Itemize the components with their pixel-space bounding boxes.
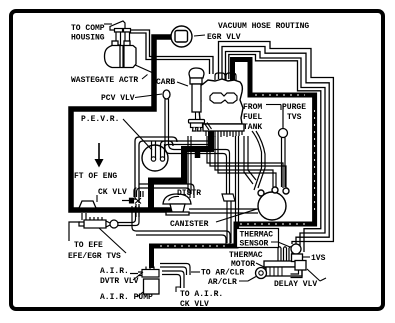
PCV valve fitting xyxy=(163,90,170,99)
delay valve xyxy=(295,261,306,271)
svg-text:A.I.R.: A.I.R. xyxy=(100,267,129,276)
thermac motor actuator circle xyxy=(256,268,267,279)
wire distributor to canister hose xyxy=(189,208,258,210)
wire PCV hose pair down and right to Y junction xyxy=(165,99,227,194)
svg-text:EFE/EGR TVS: EFE/EGR TVS xyxy=(68,252,121,261)
wire diverter to A.I.R. CK VLV elbow xyxy=(162,271,184,288)
svg-text:THERMAC: THERMAC xyxy=(240,231,274,240)
wire carb base pair down to thermac band xyxy=(236,136,239,228)
wire to comp housing hose pair lower line xyxy=(126,33,210,74)
P.E.V.R. nipple tubes xyxy=(151,141,164,161)
svg-text:A.I.R. PUMP: A.I.R. PUMP xyxy=(100,293,153,302)
svg-text:DELAY VLV: DELAY VLV xyxy=(274,280,317,289)
wire thin bundle line 4 (inner) xyxy=(229,55,321,253)
wire PEVR area hoses to distributor xyxy=(139,184,194,198)
label leader comp housing xyxy=(104,23,112,25)
P.E.V.R. valve xyxy=(142,145,168,171)
carburetor top nipple bumps xyxy=(215,73,236,80)
label THERMAC SENSOR boxed xyxy=(237,229,279,248)
compressor housing fitting xyxy=(110,21,131,45)
wire thin bundle line 3 xyxy=(226,52,326,253)
thermac motor body xyxy=(266,267,302,276)
wire diverter to AR/CLR elbow xyxy=(160,264,190,276)
svg-text:P.E.V.R.: P.E.V.R. xyxy=(81,115,119,124)
wire thick lower bottom extension xyxy=(148,207,181,213)
wire purge TVS tube down to canister xyxy=(282,138,286,188)
svg-text:1VS: 1VS xyxy=(311,254,326,263)
svg-text:FUEL: FUEL xyxy=(243,113,262,122)
wire carb base pair 3 to canister mid nipple xyxy=(215,136,276,187)
svg-text:SENSOR: SENSOR xyxy=(240,240,269,249)
purge TVS valve xyxy=(279,129,288,138)
svg-text:EGR VLV: EGR VLV xyxy=(207,33,241,42)
wire carb base pair 2 to canister right nipple xyxy=(207,136,286,188)
svg-text:HOUSING: HOUSING xyxy=(71,34,105,43)
wire TO EFE bracket xyxy=(69,222,80,241)
wire wastegate hose to thick riser xyxy=(133,64,152,73)
svg-text:DISTR: DISTR xyxy=(177,189,201,198)
svg-text:PURGE: PURGE xyxy=(282,103,306,112)
carburetor body xyxy=(198,79,243,124)
arrow FT OF ENG xyxy=(98,143,100,160)
wire thick main hose: carb top around right side to A.I.R. diverter xyxy=(152,60,315,269)
svg-text:AR/CLR: AR/CLR xyxy=(208,278,237,287)
A.I.R. pump xyxy=(144,279,160,294)
EGR valve xyxy=(171,26,192,47)
wire to comp housing hose pair (S-route past riser into carb top) xyxy=(126,30,213,74)
Y junction fitting xyxy=(222,194,235,201)
wire thick mid staircase: carb base down to engine line xyxy=(151,127,211,210)
distributor vacuum advance xyxy=(163,194,191,215)
svg-text:TANK: TANK xyxy=(243,123,262,132)
fuel bowl vent valve on carb left xyxy=(189,68,204,112)
svg-text:CK VLV: CK VLV xyxy=(180,300,209,309)
EFE/EGR TVS body xyxy=(79,217,106,228)
wire cross-fitting second riser stubs xyxy=(141,191,144,197)
wastegate actuator xyxy=(105,41,137,68)
check valve xyxy=(106,220,118,228)
A.I.R. diverter valve xyxy=(138,267,159,278)
svg-text:CARB: CARB xyxy=(156,78,175,87)
wire purge TVS riser xyxy=(282,104,284,129)
carburetor base plate xyxy=(203,124,244,131)
wire fuel tank hose pair xyxy=(252,131,262,190)
svg-text:WASTEGATE ACTR: WASTEGATE ACTR xyxy=(71,76,138,85)
svg-text:FT OF ENG: FT OF ENG xyxy=(74,172,117,181)
cross fitting near CK VLV xyxy=(122,198,141,204)
carburetor goggle cutout xyxy=(210,93,237,103)
P.E.V.R. enclosure box xyxy=(135,137,177,200)
1VS elbow fitting xyxy=(291,244,303,262)
svg-text:PCV VLV: PCV VLV xyxy=(101,94,135,103)
svg-text:TO COMP: TO COMP xyxy=(71,24,105,33)
thermac sensor nipples xyxy=(278,247,292,261)
carburetor base linkage ticks xyxy=(206,131,242,137)
wire cross fitting down pair xyxy=(136,204,139,217)
svg-text:CK VLV: CK VLV xyxy=(98,188,127,197)
canister xyxy=(258,187,289,220)
svg-text:CANISTER: CANISTER xyxy=(170,220,209,229)
wire pipe into diverter left xyxy=(130,273,138,275)
wire Y junction down pair to main hose xyxy=(227,201,231,243)
wire thin bundle line 2 xyxy=(222,47,329,245)
wire carb base line to canister left area xyxy=(244,136,253,184)
svg-text:TO A.I.R.: TO A.I.R. xyxy=(180,290,223,299)
wire left cross-fitting risers xyxy=(134,188,139,197)
EFE valve on engine line xyxy=(79,201,96,208)
wire thick main hose scan texture xyxy=(160,95,315,246)
svg-text:DVTR VLV: DVTR VLV xyxy=(100,277,139,286)
wire down from engine line to EFE TVS xyxy=(82,213,86,220)
svg-text:TO AR/CLR: TO AR/CLR xyxy=(201,269,244,278)
svg-text:TO EFE: TO EFE xyxy=(74,241,103,250)
svg-text:THERMAC: THERMAC xyxy=(229,251,263,260)
svg-text:FROM: FROM xyxy=(243,103,262,112)
thermac sensor manifold xyxy=(264,261,299,267)
idle solenoid stand under carb left xyxy=(189,112,212,131)
wire thin bundle line 1 (outer) xyxy=(219,42,334,245)
wire carb base pair down to distributor cap xyxy=(188,136,191,194)
wire PEVR hose to carb thick line xyxy=(165,145,209,151)
svg-text:VACUUM HOSE ROUTING: VACUUM HOSE ROUTING xyxy=(218,22,309,31)
wire long lower hose pair to thermac area xyxy=(136,231,230,245)
wire thick EGR supply: EGR valve to vertical riser xyxy=(71,37,171,210)
wire thick stub under carb base xyxy=(195,149,201,158)
svg-text:TVS: TVS xyxy=(287,113,302,122)
svg-text:MOTOR: MOTOR xyxy=(231,260,255,269)
wire check valve to cross fitting xyxy=(118,206,136,223)
